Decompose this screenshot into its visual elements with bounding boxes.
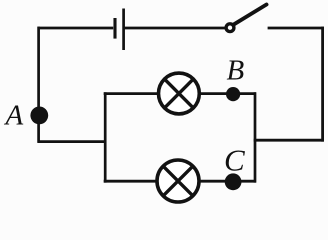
wire: battery to switch segment xyxy=(125,27,225,30)
node C (junction dot on bottom branch) xyxy=(225,173,242,190)
wire: right feed from junction to right rail xyxy=(254,139,324,142)
wire: right parallel junction vertical xyxy=(254,92,257,182)
lamp L2: cross stroke 1 xyxy=(163,166,192,195)
wire: switch to right rail segment xyxy=(268,27,324,30)
node A (junction dot on left rail) xyxy=(30,107,48,125)
node B (junction dot on top branch) xyxy=(226,87,240,101)
wire: bottom branch through lamp L2 to right junction xyxy=(104,180,256,183)
wire: top branch through lamp L1 to right junction xyxy=(104,92,256,95)
lamp L1: cross stroke 2 xyxy=(165,79,194,108)
wire: left parallel junction vertical xyxy=(104,92,107,182)
lamp L2 (bottom branch): body circle xyxy=(157,160,199,202)
wire: right rail vertical xyxy=(321,27,324,142)
lamp L1: cross stroke 1 xyxy=(165,79,194,108)
wire: left feed from rail to parallel junction xyxy=(38,140,106,143)
wire: left rail (vertical through node A) xyxy=(37,27,40,143)
svg-text:A: A xyxy=(4,100,24,132)
switch: pivot circle xyxy=(226,24,234,32)
switch: open knife switch lever xyxy=(234,5,267,25)
lamp L2: cross stroke 2 xyxy=(163,166,192,195)
wire: top-left segment from left rail to battery xyxy=(38,27,114,30)
svg-text:C: C xyxy=(224,143,245,178)
battery: long plate (positive) xyxy=(122,9,125,51)
battery: short thick plate (negative) xyxy=(113,18,116,39)
svg-text:B: B xyxy=(227,54,245,86)
lamp L1 (top branch): body circle xyxy=(159,73,200,114)
